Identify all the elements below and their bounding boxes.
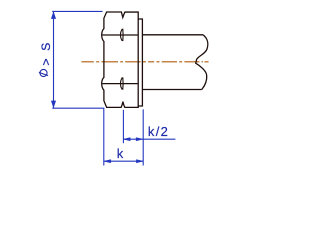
k/2 arrow left	[124, 138, 131, 141]
svg-text:k: k	[117, 146, 124, 161]
k dimension line	[104, 160, 143, 162]
shank top line	[142, 34, 203, 36]
break line	[196, 35, 208, 90]
k and k/2 shared extension line right	[142, 109, 144, 165]
centerline (bolt axis)	[81, 61, 208, 63]
hex face line lower	[102, 83, 137, 85]
k/2 extension line left	[122, 110, 124, 143]
shank bottom line	[142, 89, 201, 91]
svg-text:S: S	[39, 43, 53, 51]
arrow up	[51, 12, 55, 19]
chamfer arc pair lower	[120, 77, 123, 89]
dimension ø>S: dim line vertical	[53, 12, 55, 109]
hex face line upper	[102, 34, 137, 36]
dimension ø>S: bottom extension + elbow down (k left extension)	[52, 108, 104, 165]
arrow down	[51, 101, 55, 108]
chamfer arc pair upper	[120, 29, 123, 41]
k arrow right	[136, 160, 143, 163]
hex head outline	[102, 12, 139, 107]
dimension ø>S: top extension line	[52, 10, 102, 12]
svg-text:k/2: k/2	[148, 124, 169, 139]
washer face flange	[138, 19, 142, 106]
k/2 arrow right	[136, 138, 143, 141]
k/2 dimension line with leader	[123, 138, 175, 140]
k arrow left	[104, 160, 111, 163]
label ø>S (rotated)	[40, 69, 47, 76]
svg-text:>: >	[39, 58, 53, 65]
